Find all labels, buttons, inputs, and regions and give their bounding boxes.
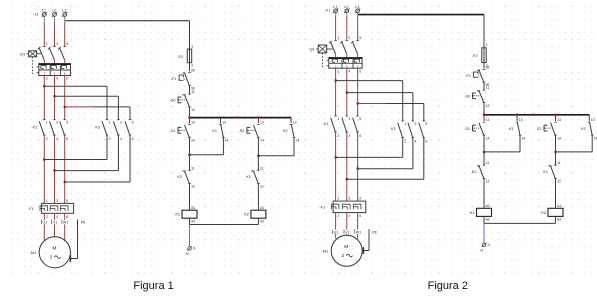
svg-text:13: 13	[191, 120, 195, 124]
svg-text:6: 6	[66, 77, 68, 81]
svg-text:U1: U1	[43, 221, 48, 225]
svg-text:A1: A1	[557, 204, 561, 208]
svg-text:2: 2	[191, 64, 193, 68]
svg-text:-M1: -M1	[322, 250, 329, 254]
svg-text:2: 2	[337, 134, 339, 138]
svg-text:4: 4	[56, 137, 58, 141]
svg-text:K2: K2	[391, 127, 396, 131]
svg-text:-F1: -F1	[28, 207, 34, 211]
svg-text:M: M	[52, 246, 56, 252]
svg-text:-X1: -X1	[325, 9, 331, 13]
svg-text:12: 12	[191, 108, 195, 112]
svg-text:1: 1	[46, 199, 48, 203]
svg-text:K2: K2	[541, 211, 546, 215]
svg-text:X-: X-	[193, 247, 196, 251]
svg-text:4: 4	[348, 69, 350, 73]
svg-text:-F1: -F1	[319, 205, 325, 209]
svg-text:-S0: -S0	[464, 95, 470, 99]
svg-text:11: 11	[557, 161, 561, 165]
svg-text:5: 5	[359, 117, 361, 121]
svg-text:11: 11	[486, 86, 490, 90]
svg-text:5: 5	[359, 36, 361, 40]
svg-text:2: 2	[337, 214, 339, 218]
svg-text:A1: A1	[260, 206, 264, 210]
svg-text:K2: K2	[472, 170, 477, 174]
svg-text:L3: L3	[62, 8, 67, 13]
svg-text:3: 3	[415, 122, 417, 126]
svg-text:K2: K2	[95, 126, 100, 130]
svg-text:95: 95	[191, 68, 195, 72]
svg-text:2: 2	[46, 77, 48, 81]
svg-text:6: 6	[359, 214, 361, 218]
svg-text:1: 1	[486, 43, 488, 47]
svg-text:K1: K1	[175, 213, 180, 217]
svg-text:4: 4	[56, 77, 58, 81]
svg-text:N: N	[186, 252, 189, 256]
svg-text:13: 13	[486, 118, 490, 122]
svg-text:-K1: -K1	[323, 122, 329, 126]
svg-text:M: M	[344, 244, 348, 250]
svg-text:-S1: -S1	[464, 127, 470, 131]
svg-text:-F2: -F2	[472, 54, 478, 58]
svg-text:U1: U1	[334, 230, 339, 234]
svg-text:6: 6	[359, 134, 361, 138]
svg-text:L3: L3	[355, 4, 360, 9]
svg-text:K1: K1	[470, 211, 475, 215]
svg-text:14: 14	[295, 139, 299, 143]
svg-text:14: 14	[260, 139, 264, 143]
svg-text:13: 13	[591, 118, 595, 122]
svg-text:X-: X-	[487, 243, 490, 247]
svg-text:4: 4	[415, 140, 417, 144]
svg-text:L2: L2	[52, 8, 57, 13]
svg-text:11: 11	[191, 166, 195, 170]
svg-text:Figura 2: Figura 2	[428, 280, 468, 292]
svg-text:14: 14	[521, 136, 525, 140]
svg-text:6: 6	[359, 69, 361, 73]
svg-text:-S2: -S2	[238, 129, 244, 133]
svg-text:3: 3	[56, 121, 58, 125]
svg-text:14: 14	[191, 139, 195, 143]
svg-text:5: 5	[66, 121, 68, 125]
svg-text:-X1: -X1	[33, 12, 39, 16]
svg-text:6: 6	[66, 137, 68, 141]
svg-text:K2: K2	[283, 129, 288, 133]
svg-text:2: 2	[109, 137, 111, 141]
svg-text:5: 5	[359, 197, 361, 201]
svg-text:12: 12	[557, 180, 561, 184]
svg-text:14: 14	[557, 136, 561, 140]
svg-text:2: 2	[46, 137, 48, 141]
svg-text:L2: L2	[344, 4, 349, 9]
svg-text:K2: K2	[244, 213, 249, 217]
svg-text:K1: K1	[543, 170, 548, 174]
svg-text:A1: A1	[486, 204, 490, 208]
svg-text:5: 5	[66, 42, 68, 46]
svg-text:14: 14	[486, 136, 490, 140]
svg-text:1: 1	[337, 197, 339, 201]
svg-text:-S2: -S2	[536, 127, 542, 131]
svg-text:4: 4	[56, 215, 58, 219]
svg-text:1: 1	[46, 42, 48, 46]
svg-text:3: 3	[56, 42, 58, 46]
svg-text:4: 4	[348, 134, 350, 138]
svg-text:6: 6	[425, 140, 427, 144]
svg-text:13: 13	[222, 120, 226, 124]
svg-text:-S0: -S0	[170, 99, 176, 103]
svg-text:1: 1	[337, 36, 339, 40]
svg-text:6: 6	[132, 137, 134, 141]
svg-text:-Q1: -Q1	[19, 52, 25, 56]
svg-text:1: 1	[109, 121, 111, 125]
svg-text:W1: W1	[356, 230, 361, 234]
svg-text:5: 5	[425, 122, 427, 126]
svg-text:2: 2	[404, 140, 406, 144]
svg-text:K1: K1	[246, 175, 251, 179]
svg-text:1: 1	[46, 121, 48, 125]
svg-text:-K1: -K1	[31, 126, 37, 130]
svg-text:K2: K2	[581, 127, 586, 131]
svg-text:V1: V1	[345, 230, 349, 234]
svg-text:K2: K2	[177, 175, 182, 179]
svg-text:-F1: -F1	[171, 77, 177, 81]
svg-text:A2: A2	[191, 219, 195, 223]
svg-text:3: 3	[348, 36, 350, 40]
svg-text:L1: L1	[333, 4, 338, 9]
svg-text:11: 11	[260, 166, 264, 170]
svg-text:3: 3	[348, 197, 350, 201]
svg-text:13: 13	[519, 118, 523, 122]
svg-text:L1: L1	[42, 8, 47, 13]
svg-text:3: 3	[56, 199, 58, 203]
svg-text:A2: A2	[260, 219, 264, 223]
svg-text:4: 4	[120, 137, 122, 141]
svg-text:-F1: -F1	[465, 74, 471, 78]
svg-text:-Q1: -Q1	[308, 48, 314, 52]
svg-text:A1: A1	[191, 206, 195, 210]
svg-text:14: 14	[594, 136, 597, 140]
svg-text:13: 13	[293, 120, 297, 124]
svg-text:3: 3	[120, 121, 122, 125]
svg-text:K1: K1	[212, 129, 217, 133]
svg-text:13: 13	[260, 120, 264, 124]
svg-text:5: 5	[66, 199, 68, 203]
svg-text:A2: A2	[557, 218, 561, 222]
svg-text:K1: K1	[509, 127, 514, 131]
svg-text:A2: A2	[486, 218, 490, 222]
svg-text:4: 4	[348, 214, 350, 218]
svg-text:-M1: -M1	[30, 251, 37, 255]
svg-text:6: 6	[66, 215, 68, 219]
svg-text:2: 2	[46, 215, 48, 219]
svg-text:Figura 1: Figura 1	[133, 280, 173, 292]
svg-text:5: 5	[132, 121, 134, 125]
svg-text:12: 12	[486, 180, 490, 184]
svg-text:14: 14	[225, 139, 229, 143]
svg-text:1: 1	[404, 122, 406, 126]
svg-text:-S1: -S1	[170, 129, 176, 133]
svg-text:12: 12	[486, 104, 490, 108]
svg-text:W1: W1	[63, 221, 68, 225]
svg-text:95: 95	[486, 66, 490, 70]
svg-text:N: N	[480, 248, 483, 252]
svg-text:11: 11	[191, 90, 195, 94]
svg-text:1: 1	[337, 117, 339, 121]
svg-text:12: 12	[191, 185, 195, 189]
svg-text:PE: PE	[372, 230, 377, 234]
svg-text:3: 3	[348, 117, 350, 121]
svg-text:1: 1	[191, 45, 193, 49]
svg-text:-F2: -F2	[177, 55, 183, 59]
svg-text:2: 2	[337, 69, 339, 73]
svg-text:V1: V1	[53, 221, 57, 225]
svg-text:13: 13	[557, 118, 561, 122]
svg-text:12: 12	[260, 185, 264, 189]
svg-text:PE: PE	[81, 221, 86, 225]
svg-text:11: 11	[486, 161, 490, 165]
